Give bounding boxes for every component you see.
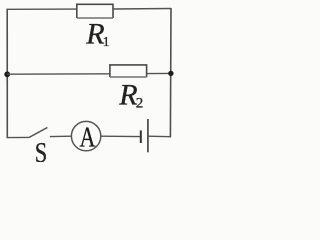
ammeter U1 circle (71, 121, 100, 150)
wire top-left segment (7, 8, 77, 10)
svg-text:R: R (118, 79, 137, 112)
label R1 (85, 18, 109, 51)
wire middle-right segment (147, 72, 171, 74)
wire middle-left segment (7, 73, 110, 75)
node left junction (4, 71, 10, 77)
wire bottom-left segment (7, 136, 28, 138)
switch S blade (29, 128, 48, 138)
svg-text:2: 2 (136, 95, 144, 111)
node right junction (168, 71, 173, 76)
label R2 (118, 79, 143, 112)
wire switch to ammeter (50, 135, 72, 137)
battery long plate (147, 119, 149, 152)
svg-text:A: A (80, 121, 96, 154)
resistor R1 (77, 4, 113, 18)
svg-text:1: 1 (103, 35, 110, 50)
wire left vertical (6, 9, 8, 139)
wire ammeter to battery (101, 135, 141, 137)
wire right vertical (169, 8, 172, 137)
wire battery to right vertical (148, 135, 171, 138)
battery short plate (140, 130, 142, 143)
wire top-right segment (113, 8, 171, 11)
svg-text:S: S (35, 138, 47, 162)
resistor R2 (110, 65, 147, 77)
